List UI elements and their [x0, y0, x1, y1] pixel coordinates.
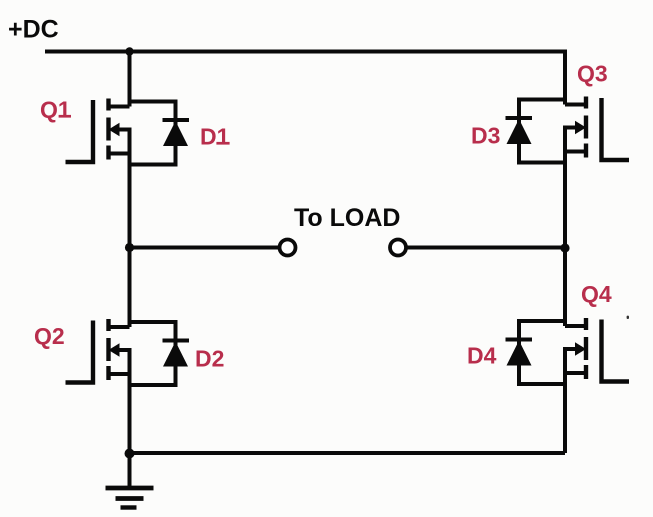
svg-text:Q4: Q4: [581, 281, 612, 307]
svg-text:D3: D3: [471, 123, 500, 149]
svg-text:D2: D2: [195, 346, 224, 372]
svg-text:To LOAD: To LOAD: [294, 204, 400, 232]
svg-text:D1: D1: [200, 124, 230, 150]
svg-text:Q2: Q2: [34, 323, 65, 349]
svg-text:Q1: Q1: [40, 97, 71, 123]
svg-text:Q3: Q3: [577, 61, 608, 87]
svg-text:+DC: +DC: [8, 16, 59, 44]
svg-text:D4: D4: [467, 343, 497, 369]
